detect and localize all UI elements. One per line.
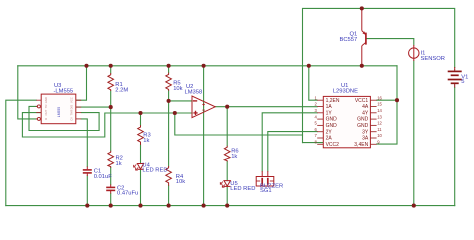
svg-text:2Y: 2Y (326, 129, 333, 135)
wire R3 branch from plus net (140, 113, 142, 125)
svg-text:0.47uFu: 0.47uFu (117, 191, 138, 197)
svg-text:LM555: LM555 (57, 107, 61, 117)
L293 pin stubs right (370, 100, 376, 144)
555 internal pin names (44, 97, 74, 121)
junction bus at C2 (109, 204, 113, 208)
svg-text:10k: 10k (173, 86, 182, 92)
junction top border at transistor emitter (360, 6, 364, 10)
LED U4 (134, 164, 144, 171)
resistor R1 (108, 73, 114, 91)
wire battery minus to ground bus (454, 88, 456, 206)
svg-text:1k: 1k (231, 154, 237, 160)
wire 555 OUT pin3 wrap to opamp plus input (22, 113, 192, 137)
L293 pin numbers right (377, 95, 382, 144)
wire 555 DIS pin to R1 R2 junction (76, 106, 111, 108)
wire junction down to R2 (110, 107, 112, 151)
555 pin stubs left (36, 100, 41, 119)
svg-text:L293DNE: L293DNE (333, 88, 358, 94)
wire opamp V minus to ground bus (203, 107, 205, 206)
svg-text:2A: 2A (326, 136, 333, 142)
svg-text:2.2M: 2.2M (115, 87, 128, 93)
svg-text:SENSOR: SENSOR (421, 56, 445, 62)
svg-text:5: 5 (314, 121, 317, 126)
svg-text:-LM555: -LM555 (54, 89, 74, 95)
wire LED U5 to ground bus (226, 186, 228, 205)
junction R1 R2 DIS node (109, 105, 113, 109)
555 pin stubs right (76, 100, 81, 119)
wire 555 TR pin2 wrap to THR (29, 106, 99, 130)
svg-text:10k: 10k (176, 179, 185, 185)
wire pin8 VCC2 connector (303, 142, 324, 144)
wire rail to 555 reset pin4 (18, 66, 38, 119)
svg-text:3,4EN: 3,4EN (354, 142, 368, 148)
svg-text:GND: GND (326, 123, 338, 129)
resistor R4 (166, 166, 172, 186)
wire LED U4 to ground bus (140, 169, 142, 205)
svg-text:1k: 1k (143, 138, 149, 144)
svg-text:11: 11 (377, 127, 382, 132)
wire R1 bottom to junction (110, 91, 112, 107)
wire R5 bottom to minus junction (168, 91, 170, 101)
wire rail corner to VCC1 pin16 and 3,4EN pin9 (377, 66, 397, 144)
svg-text:12: 12 (377, 121, 382, 126)
junction rail at opamp V plus (202, 64, 206, 68)
svg-text:15: 15 (377, 102, 382, 107)
transistor Q1 (362, 8, 366, 65)
junction minus input node (167, 99, 171, 103)
svg-text:8: 8 (314, 140, 317, 145)
capacitor C1 (83, 167, 92, 177)
svg-text:BC557: BC557 (340, 37, 358, 43)
wire minus junction down to R4 (168, 101, 170, 166)
resistor R5 (166, 73, 172, 91)
svg-text:VCC2: VCC2 (326, 142, 340, 148)
wire ground bus (6, 205, 455, 207)
svg-text:CV: CV (70, 117, 74, 121)
resistor R6 (224, 146, 230, 162)
wire ground left riser to 555 pin1 (6, 100, 36, 205)
svg-text:VCC: VCC (70, 97, 74, 103)
wire rail to L293 pin1 (309, 66, 317, 100)
wire R4 to ground bus (168, 186, 170, 206)
svg-text:3Y: 3Y (362, 129, 369, 135)
svg-text:GND: GND (357, 123, 369, 129)
junction rail at 555 VCC riser (84, 64, 88, 68)
svg-text:1,2EN: 1,2EN (326, 98, 340, 104)
wire 555 CV pin to C1 (81, 119, 87, 167)
wire sensor to ground bus (413, 61, 415, 206)
junction VCC1 node (395, 98, 399, 102)
wire rail to opamp V plus (203, 66, 205, 107)
wire plus net branch down and right to outer vertical (175, 113, 303, 135)
wire rail to R5 top (168, 66, 170, 73)
junction plus net at R3 (138, 111, 142, 115)
svg-text:DIS: DIS (70, 105, 74, 110)
svg-text:THR: THR (70, 110, 74, 116)
svg-text:SG1: SG1 (260, 188, 272, 194)
555 inversion bubble pin2 (37, 105, 40, 108)
LED U5 (220, 181, 230, 188)
svg-text:GND: GND (44, 97, 48, 103)
svg-text:GND: GND (326, 117, 338, 123)
svg-text:5: 5 (461, 79, 464, 85)
wire L293 pin6 2Y to buzzer leg2 (268, 132, 317, 171)
junction bus at R4 (167, 204, 171, 208)
wire rail to R1 top (110, 66, 112, 73)
wire R3 to LED U4 (140, 145, 142, 164)
svg-text:10: 10 (377, 133, 382, 138)
L293 pin stubs left (317, 100, 323, 144)
junction rail at transistor collector (360, 64, 364, 68)
capacitor C2 (106, 185, 115, 194)
wire 555 VCC pin to rail (76, 66, 87, 100)
svg-text:OUT: OUT (44, 109, 48, 115)
L293 internal pin names (326, 98, 340, 148)
svg-text:14: 14 (377, 108, 382, 113)
svg-text:2: 2 (314, 102, 317, 107)
junction bus at LED U4 (138, 204, 142, 208)
wire C2 to ground bus (110, 194, 112, 206)
wire L293 pin3 1Y to buzzer leg1 (262, 113, 317, 171)
555 inversion bubble pin4 (37, 117, 40, 120)
junction bus at C1 (85, 204, 89, 208)
wire transistor base to sensor (366, 39, 413, 45)
svg-text:GND: GND (357, 117, 369, 123)
svg-text:4A: 4A (362, 104, 369, 110)
svg-text:4: 4 (314, 114, 317, 119)
battery V1 (448, 70, 462, 88)
wire C1 to ground bus (86, 176, 88, 206)
junction opamp output at R6 (225, 105, 229, 109)
op-amp U2 (192, 96, 215, 118)
junction bus at sensor (412, 204, 416, 208)
IC U1 L293DNE (314, 95, 382, 147)
sensor I1 (409, 45, 419, 61)
junction bus at LED U5 (225, 204, 229, 208)
svg-text:1A: 1A (326, 104, 333, 110)
svg-text:LED RED: LED RED (142, 168, 167, 174)
wire R2 to C2 (110, 168, 112, 185)
svg-text:VCC1: VCC1 (355, 98, 369, 104)
svg-text:16: 16 (377, 95, 382, 100)
svg-text:LED RED: LED RED (230, 186, 255, 192)
svg-text:TR: TR (44, 105, 48, 109)
svg-text:7: 7 (314, 133, 317, 138)
junction rail at R5 (167, 64, 171, 68)
resistor R2 (108, 151, 114, 168)
wire R6 to LED U5 (226, 162, 228, 181)
junction rail at R1 (109, 64, 113, 68)
buzzer SG1 (256, 171, 274, 186)
svg-text:13: 13 (377, 114, 382, 119)
transistor Q1 emitter arrow (363, 31, 366, 35)
resistor R3 (138, 125, 144, 145)
wire battery plus lead (454, 68, 456, 70)
wire minus junction to opamp minus input (169, 100, 193, 102)
junction plus net at branch (173, 111, 177, 115)
svg-text:3A: 3A (362, 136, 369, 142)
junction rail at L293 pin1 riser (307, 64, 311, 68)
wire top border VCC loop (303, 8, 455, 142)
svg-text:1Y: 1Y (326, 110, 333, 116)
L293 pin numbers left (314, 95, 317, 144)
svg-text:4Y: 4Y (362, 110, 369, 116)
wire VCC rail (18, 65, 397, 67)
wire output branch down to R6 (226, 107, 228, 146)
junction bus at opamp V minus (202, 204, 206, 208)
svg-text:1k: 1k (116, 161, 122, 167)
svg-text:0.01uF: 0.01uF (94, 174, 113, 180)
wire opamp output to L293 pin2 (215, 106, 317, 108)
svg-text:LM358: LM358 (185, 89, 203, 95)
wire VCC1 junction to pin16 (377, 99, 397, 101)
svg-text:R: R (44, 118, 48, 120)
IC U3 LM555 (36, 94, 81, 124)
